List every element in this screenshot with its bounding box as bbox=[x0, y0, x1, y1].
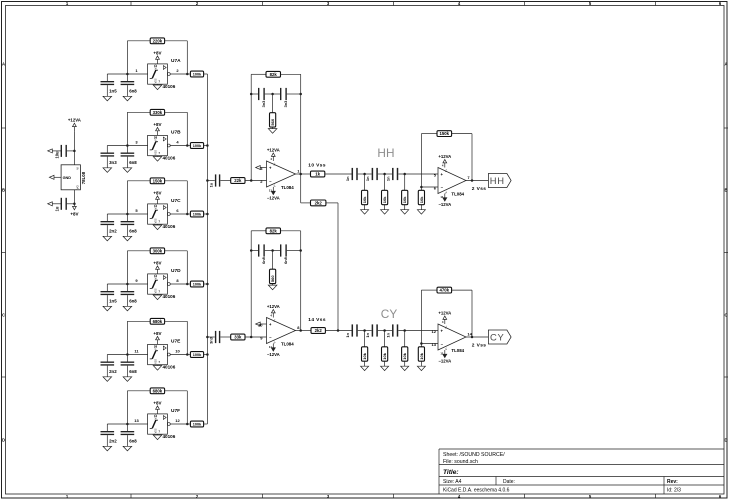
wire mid cap to resistor U8A bbox=[272, 94, 274, 113]
svg-text:KiCad E.D.A. eeschema 4.0.6: KiCad E.D.A. eeschema 4.0.6 bbox=[443, 488, 510, 494]
svg-text:VSS: VSS bbox=[154, 150, 157, 155]
resistor RDf 300k bbox=[150, 248, 164, 254]
ground U7A VSS bbox=[153, 84, 162, 89]
junction output buffer CY bbox=[471, 336, 474, 339]
power -12VA U8B bbox=[267, 344, 280, 358]
wire inverting down CY bbox=[420, 344, 422, 347]
ground U7C VSS bbox=[153, 224, 162, 229]
svg-text:12: 12 bbox=[432, 329, 437, 334]
power flag +8V bbox=[70, 206, 78, 216]
svg-text:10: 10 bbox=[175, 349, 180, 354]
junction caps row right U8A bbox=[299, 93, 302, 96]
resistor 560 U8A bbox=[270, 113, 276, 127]
wire feedback top-right U8A bbox=[281, 73, 301, 75]
op-amp U8B-buf TL084 buffer HH bbox=[438, 168, 466, 194]
svg-text:6n8: 6n8 bbox=[129, 369, 137, 374]
svg-text:CY: CY bbox=[490, 331, 505, 342]
wire shunt 2 HH bbox=[384, 174, 386, 190]
resistor 560 U8B bbox=[270, 269, 276, 283]
resistor 470k feedback CY bbox=[437, 287, 452, 293]
wire output U7B bbox=[170, 145, 187, 147]
svg-text:40106: 40106 bbox=[163, 434, 176, 439]
wire to output resistor U7C bbox=[187, 213, 190, 215]
svg-text:U7D: U7D bbox=[171, 268, 181, 274]
capacitor 1n a HH bbox=[352, 168, 358, 180]
wire feedback top-right U7C bbox=[165, 180, 188, 182]
svg-text:40106: 40106 bbox=[163, 365, 176, 370]
wire cap to resistor U8A bbox=[220, 180, 230, 182]
svg-text:−12VA: −12VA bbox=[438, 359, 451, 364]
wire feedback left U7B bbox=[126, 112, 128, 145]
svg-text:3n3: 3n3 bbox=[261, 100, 266, 108]
svg-text:33k: 33k bbox=[234, 335, 242, 340]
svg-text:2n2: 2n2 bbox=[109, 369, 117, 374]
junction output U7F bbox=[186, 423, 189, 426]
power -12VA buffer HH bbox=[438, 194, 451, 208]
schmitt inverter U7F 40106 bbox=[148, 414, 168, 434]
junction chain 3 HH bbox=[403, 173, 406, 176]
wire chain a-b HH bbox=[358, 173, 372, 175]
svg-text:U7A: U7A bbox=[171, 58, 181, 64]
ground shunt 3 CY bbox=[401, 366, 409, 370]
junction output U7A bbox=[186, 73, 189, 76]
svg-text:VSS: VSS bbox=[154, 288, 157, 293]
ground shunt 2 HH bbox=[381, 210, 389, 214]
op-amp U8A TL084 mixer bbox=[267, 161, 296, 187]
wire input U7B bbox=[107, 145, 147, 147]
output bubble U7F bbox=[167, 423, 170, 426]
svg-text:1k: 1k bbox=[315, 172, 320, 177]
svg-text:1n: 1n bbox=[385, 176, 390, 181]
svg-text:+12VA: +12VA bbox=[267, 147, 280, 152]
ground arrow at regulator GND bbox=[49, 175, 54, 179]
wire 2k2 to CY chain bbox=[325, 330, 352, 332]
svg-text:3n3: 3n3 bbox=[109, 160, 117, 165]
wire feedback top-left CY bbox=[421, 289, 437, 291]
junction inverting input U8A bbox=[250, 179, 253, 182]
svg-text:1n: 1n bbox=[385, 332, 390, 337]
wire feedback up HH bbox=[420, 134, 422, 187]
wire feedback top-left U7B bbox=[127, 111, 150, 113]
svg-text:14 Vss: 14 Vss bbox=[308, 317, 326, 323]
ground at 2n2 cap U7F bbox=[103, 446, 112, 451]
svg-text:Size: A4: Size: A4 bbox=[443, 479, 462, 485]
svg-text:12: 12 bbox=[175, 418, 180, 423]
svg-text:−12VA: −12VA bbox=[267, 352, 280, 357]
svg-text:File: sound.sch: File: sound.sch bbox=[443, 459, 478, 465]
capacitor 3n3 input U8B bbox=[215, 331, 220, 343]
junction regulator input bbox=[73, 150, 76, 153]
resistor 10k feedback-leg CY bbox=[418, 347, 424, 361]
svg-text:VI: VI bbox=[76, 167, 80, 170]
ground at 6n8 cap U7C bbox=[123, 236, 132, 241]
svg-text:A: A bbox=[2, 62, 5, 67]
capacitor 1n5 U7A bbox=[101, 74, 115, 96]
capacitor 1n c HH bbox=[392, 168, 398, 180]
power +8V U7D bbox=[153, 260, 161, 274]
wire non-inverting stub U8A bbox=[260, 167, 266, 169]
svg-text:1n5: 1n5 bbox=[109, 299, 117, 304]
wire caps row left U8A bbox=[251, 93, 258, 95]
resistor 150k feedback HH bbox=[437, 131, 452, 137]
junction input U7A bbox=[126, 73, 128, 76]
ground arrow at 1u bbox=[48, 202, 53, 206]
output bubble U7C bbox=[167, 213, 170, 216]
wire cap to resistor U8B bbox=[220, 336, 230, 338]
resistor 10k shunt 2 HH bbox=[382, 190, 388, 204]
junction bus tap mixer U8B bbox=[206, 336, 209, 339]
wire cross resistor right bbox=[326, 202, 338, 204]
svg-text:+8V: +8V bbox=[153, 331, 161, 336]
ground at 1n5 cap U7A bbox=[103, 96, 112, 101]
wire feedback left U7C bbox=[126, 181, 128, 214]
power +12VA buffer HH bbox=[438, 154, 451, 168]
power -12VA U8A bbox=[267, 187, 280, 201]
svg-text:680k: 680k bbox=[153, 388, 163, 393]
resistor RCo 100k bbox=[190, 211, 203, 217]
capacitor 3n3 U7B bbox=[101, 146, 115, 168]
ground shunt 1 CY bbox=[361, 366, 369, 370]
wire chain b-c HH bbox=[378, 173, 392, 175]
resistor 1k HH bbox=[311, 171, 325, 177]
resistor RFf 680k bbox=[150, 388, 164, 394]
schmitt inverter U7E 40106 bbox=[148, 344, 168, 364]
output bubble U7A bbox=[167, 73, 170, 76]
svg-text:14: 14 bbox=[467, 331, 472, 336]
svg-text:Id: 2/3: Id: 2/3 bbox=[667, 488, 681, 494]
ground shunt 3 HH bbox=[401, 210, 409, 214]
svg-text:B: B bbox=[724, 188, 727, 193]
svg-text:2n2: 2n2 bbox=[109, 229, 117, 234]
capacitor 6n8 feedback-b U8B bbox=[280, 244, 287, 256]
svg-text:C: C bbox=[2, 313, 5, 318]
svg-text:10k: 10k bbox=[362, 352, 367, 359]
wire feedback top-left U7D bbox=[127, 250, 150, 252]
svg-text:680k: 680k bbox=[153, 319, 163, 324]
wire shunt 1 CY bbox=[364, 331, 366, 347]
resistor RFo 100k bbox=[190, 421, 203, 427]
svg-text:82k: 82k bbox=[270, 72, 278, 77]
capacitor 6n8 U7D bbox=[121, 284, 135, 306]
svg-text:6n8: 6n8 bbox=[261, 256, 266, 264]
wire input U7D bbox=[107, 283, 147, 285]
wire feedback top-left U7C bbox=[127, 180, 150, 182]
svg-text:+8V: +8V bbox=[153, 400, 161, 405]
svg-text:1u: 1u bbox=[209, 182, 214, 187]
resistor 2k2 cross bbox=[311, 200, 326, 206]
svg-text:+8V: +8V bbox=[70, 212, 78, 217]
capacitor 3n3 feedback-b U8A bbox=[280, 88, 287, 100]
wire output U8B bbox=[296, 330, 311, 332]
junction inverting node HH bbox=[420, 186, 423, 189]
wire shunt 3 CY bbox=[404, 331, 406, 347]
wire feedback left vertical U8A bbox=[250, 74, 252, 180]
schmitt inverter U7C 40106 bbox=[148, 204, 168, 224]
wire caps row right U8A bbox=[287, 93, 301, 95]
svg-text:C: C bbox=[724, 313, 727, 318]
svg-text:GND: GND bbox=[63, 176, 72, 180]
junction chain 1 CY bbox=[363, 329, 366, 332]
ground at 2n2 cap U7C bbox=[103, 236, 112, 241]
wire feedback top-left U7F bbox=[127, 390, 150, 392]
wire feedback-leg ground CY bbox=[420, 361, 422, 366]
resistor Rin 22k U8A bbox=[231, 178, 245, 184]
capacitor 1u input U8A bbox=[215, 174, 220, 186]
svg-text:3n3: 3n3 bbox=[209, 336, 214, 344]
svg-text:2 Vss: 2 Vss bbox=[472, 342, 487, 348]
junction chain 2 CY bbox=[383, 329, 386, 332]
power +8V U7A bbox=[153, 50, 161, 64]
svg-text:TL084: TL084 bbox=[281, 185, 294, 190]
wire feedback down HH bbox=[471, 134, 473, 181]
svg-text:2k2: 2k2 bbox=[315, 328, 323, 333]
ground arrow non-inverting U8A bbox=[256, 166, 261, 170]
svg-text:100k: 100k bbox=[193, 283, 202, 287]
svg-text:+12VA: +12VA bbox=[68, 118, 81, 123]
svg-text:1u: 1u bbox=[54, 206, 59, 211]
ground U7F VSS bbox=[153, 434, 162, 439]
wire feedback right vertical U8B bbox=[300, 231, 302, 331]
svg-text:+8V: +8V bbox=[153, 260, 161, 265]
svg-text:10 Vss: 10 Vss bbox=[308, 162, 326, 168]
wire feedback top-left U8B bbox=[251, 230, 266, 232]
resistor Rfb 82k U8B bbox=[266, 228, 281, 234]
power +8V U7E bbox=[153, 331, 161, 345]
junction CY chain cross bbox=[337, 329, 340, 332]
svg-text:2 Vss: 2 Vss bbox=[472, 186, 487, 192]
svg-text:6n8: 6n8 bbox=[129, 89, 137, 94]
wire +12VA to regulator VI bbox=[73, 131, 75, 165]
svg-text:1n5: 1n5 bbox=[109, 89, 117, 94]
wire feedback top-right U7A bbox=[165, 40, 188, 42]
power +12VA U8A bbox=[267, 147, 280, 161]
svg-text:6n8: 6n8 bbox=[129, 439, 137, 444]
wire feedback top-left U8A bbox=[251, 73, 266, 75]
svg-text:U7C: U7C bbox=[171, 198, 181, 204]
wire shunt 3 to ground CY bbox=[404, 361, 406, 366]
wire resistor to bus U7B bbox=[204, 145, 208, 147]
wire feedback right U7A bbox=[186, 41, 188, 74]
svg-text:D: D bbox=[724, 438, 727, 443]
output bubble U7E bbox=[167, 353, 170, 356]
capacitor 6n8 U7E bbox=[121, 355, 135, 377]
power +8V U7F bbox=[153, 400, 161, 414]
power flag +12VA bbox=[68, 118, 81, 132]
svg-text:−12VA: −12VA bbox=[267, 196, 280, 201]
junction output U7C bbox=[186, 213, 189, 216]
ground U7B VSS bbox=[153, 156, 162, 161]
capacitor 1n c CY bbox=[392, 324, 398, 336]
junction inverting input U8B bbox=[250, 336, 253, 339]
wire caps row mid U8A bbox=[265, 93, 280, 95]
wire shunt 1 to ground HH bbox=[364, 205, 366, 210]
svg-text:40106: 40106 bbox=[163, 224, 176, 229]
svg-text:40106: 40106 bbox=[163, 156, 176, 161]
ground at 6n8 cap U7E bbox=[123, 377, 132, 382]
junction output U7D bbox=[186, 283, 189, 286]
wire regulator GND pin bbox=[54, 176, 61, 178]
junction input U7D bbox=[126, 283, 128, 286]
wire input U7E bbox=[107, 354, 147, 356]
svg-text:150k: 150k bbox=[153, 178, 163, 183]
resistor 10k shunt 3 HH bbox=[402, 190, 408, 204]
svg-text:CY: CY bbox=[381, 307, 398, 321]
capacitor 6n8 U7B bbox=[121, 146, 135, 168]
svg-text:100k: 100k bbox=[193, 213, 202, 217]
svg-text:VSS: VSS bbox=[154, 218, 157, 223]
wire feedback right U7E bbox=[186, 321, 188, 354]
svg-text:220k: 220k bbox=[153, 38, 163, 43]
ground feedback-leg CY bbox=[417, 366, 425, 370]
capacitor 6n8 U7C bbox=[121, 214, 135, 236]
wire inverting stub HH bbox=[421, 186, 438, 188]
ground at 6n8 cap U7D bbox=[123, 306, 132, 311]
wire to output resistor U7F bbox=[187, 423, 190, 425]
wire mid cap to resistor U8B bbox=[272, 251, 274, 270]
svg-text:Sheet: /SOUND SOURCE/: Sheet: /SOUND SOURCE/ bbox=[443, 452, 505, 458]
svg-text:40106: 40106 bbox=[163, 84, 176, 89]
wire feedback top-right HH bbox=[452, 133, 472, 135]
power +12VA U8B bbox=[267, 304, 280, 318]
resistor REo 100k bbox=[190, 352, 203, 358]
wire output U7D bbox=[170, 283, 187, 285]
junction output U7B bbox=[186, 144, 189, 147]
wire feedback top-right U7E bbox=[165, 320, 188, 322]
wire resistor to bus U7C bbox=[204, 213, 208, 215]
wire caps row left U8B bbox=[251, 250, 258, 252]
junction bus y284 bbox=[206, 283, 209, 286]
wire feedback up CY bbox=[420, 290, 422, 343]
ground at 3n3 cap U7B bbox=[103, 168, 112, 173]
wire mixer1 output down bbox=[300, 174, 302, 203]
capacitor 6n8 U7F bbox=[121, 424, 135, 446]
wire output buffer CY bbox=[466, 336, 488, 338]
svg-text:100k: 100k bbox=[193, 353, 202, 357]
junction inverting node CY bbox=[420, 342, 423, 345]
wire resistor to inverting input U8A bbox=[245, 180, 267, 182]
svg-text:HH: HH bbox=[490, 175, 505, 186]
wire resistor to bus U7E bbox=[204, 354, 208, 356]
ground shunt 1 HH bbox=[361, 210, 369, 214]
ground U7D VSS bbox=[153, 294, 162, 299]
capacitor 1n b CY bbox=[372, 324, 378, 336]
junction input U7E bbox=[126, 353, 128, 356]
resistor 10k shunt 3 CY bbox=[402, 347, 408, 361]
ground feedback-leg HH bbox=[417, 210, 425, 214]
wire inverting stub CY bbox=[421, 343, 438, 345]
schmitt inverter U7D 40106 bbox=[148, 274, 168, 294]
ground at 2n2 cap U7E bbox=[103, 377, 112, 382]
svg-text:U7B: U7B bbox=[171, 130, 181, 136]
wire shunt 1 HH bbox=[364, 174, 366, 190]
resistor 10k shunt 1 CY bbox=[362, 347, 368, 361]
svg-text:300k: 300k bbox=[153, 248, 163, 253]
hierarchical output label CY bbox=[488, 330, 511, 344]
capacitor 1n5 U7D bbox=[101, 284, 115, 306]
regulator U6 78L08 bbox=[61, 165, 80, 190]
wire output U8A bbox=[296, 173, 311, 175]
svg-text:22k: 22k bbox=[234, 178, 242, 183]
svg-text:10: 10 bbox=[258, 323, 263, 328]
wire feedback top-right U8B bbox=[281, 230, 301, 232]
svg-text:10u: 10u bbox=[54, 151, 59, 159]
svg-text:Rev:: Rev: bbox=[667, 479, 678, 485]
resistor 10k feedback-leg HH bbox=[418, 190, 424, 204]
bus wire vertical bbox=[206, 74, 208, 424]
wire resistor to bus U7F bbox=[204, 423, 208, 425]
wire shunt 2 to ground CY bbox=[384, 361, 386, 366]
junction output U8A bbox=[299, 173, 302, 176]
junction caps row right U8B bbox=[299, 249, 302, 252]
svg-text:2n2: 2n2 bbox=[109, 439, 117, 444]
power +8V U7C bbox=[153, 190, 161, 204]
svg-text:560: 560 bbox=[270, 275, 275, 282]
resistor 2k2 CY bbox=[311, 328, 325, 334]
capacitor 6n8 feedback-a U8B bbox=[258, 244, 265, 256]
ground arrow at 10u bbox=[48, 149, 53, 153]
wire chain b-c CY bbox=[378, 330, 392, 332]
wire caps row mid U8B bbox=[265, 250, 280, 252]
wire 1k to HH chain bbox=[325, 173, 352, 175]
svg-text:10k: 10k bbox=[382, 196, 387, 203]
junction caps row mid U8A bbox=[271, 93, 274, 96]
power -12VA buffer CY bbox=[438, 350, 451, 364]
svg-text:10k: 10k bbox=[362, 196, 367, 203]
wire to cross resistor bbox=[301, 202, 311, 204]
capacitor 2n2 U7F bbox=[101, 424, 115, 446]
svg-text:10k: 10k bbox=[419, 352, 424, 359]
resistor RCf 150k bbox=[150, 178, 164, 184]
wire feedback right U7C bbox=[186, 181, 188, 214]
title block bbox=[439, 449, 724, 494]
junction output U7E bbox=[186, 353, 189, 356]
svg-text:Title:: Title: bbox=[443, 469, 459, 476]
wire feedback right U7F bbox=[186, 391, 188, 424]
svg-text:13: 13 bbox=[134, 418, 139, 423]
wire shunt 3 HH bbox=[404, 174, 406, 190]
svg-text:+12VA: +12VA bbox=[267, 304, 280, 309]
wire feedback right U7B bbox=[186, 112, 188, 145]
wire caps row right U8B bbox=[287, 250, 301, 252]
svg-text:+8V: +8V bbox=[153, 50, 161, 55]
svg-text:VSS: VSS bbox=[154, 78, 157, 83]
wire feedback left U7A bbox=[126, 41, 128, 74]
svg-text:6n8: 6n8 bbox=[283, 256, 288, 264]
svg-text:−12VA: −12VA bbox=[438, 202, 451, 207]
wire non-inverting stub U8B bbox=[260, 323, 266, 325]
junction output buffer HH bbox=[471, 179, 474, 182]
ground at 6n8 cap U7F bbox=[123, 446, 132, 451]
ground at 6n8 cap U7A bbox=[123, 96, 132, 101]
capacitor C 1u bbox=[52, 198, 74, 210]
power +8V U7B bbox=[153, 122, 161, 136]
svg-text:10k: 10k bbox=[402, 196, 407, 203]
svg-text:560: 560 bbox=[270, 118, 275, 125]
wire feedback top-left HH bbox=[421, 133, 437, 135]
wire feedback top-right U7B bbox=[165, 111, 188, 113]
svg-text:HH: HH bbox=[377, 146, 394, 160]
svg-text:1n: 1n bbox=[365, 176, 370, 181]
resistor RBf 330k bbox=[150, 109, 164, 115]
svg-text:330k: 330k bbox=[153, 110, 163, 115]
wire chain to op-amp HH bbox=[398, 173, 438, 175]
junction bus y145 bbox=[206, 144, 209, 147]
svg-text:470k: 470k bbox=[440, 288, 450, 293]
output bubble U7B bbox=[167, 144, 170, 147]
svg-text:+8V: +8V bbox=[153, 190, 161, 195]
junction caps row left U8B bbox=[250, 249, 253, 252]
junction regulator output bbox=[73, 203, 76, 206]
